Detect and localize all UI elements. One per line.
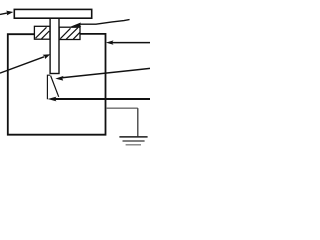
leaf 2 (deflected) [51, 76, 59, 97]
leader arrow 4 (to rod, from lower left) [0, 54, 50, 73]
ground symbol [119, 137, 147, 145]
leader arrow 1 (to plate, from left edge) [0, 11, 13, 16]
insulator block left [34, 26, 50, 39]
leader arrow 3 (to case right wall, from right edge) [106, 40, 150, 44]
ground wire [106, 107, 138, 109]
case (metal box) [8, 34, 106, 135]
top plate (bar) [14, 9, 91, 18]
insulator block right [59, 27, 80, 39]
leaf 1 (vertical) [47, 75, 50, 99]
leader arrow 2 (to rod at insulator, from upper right) [70, 20, 129, 27]
leader arrow 6 (to vertical leaf bottom, from right edge) [48, 97, 150, 102]
rod [50, 18, 59, 73]
leader arrow 5 (to deflected leaf, from right edge) [55, 68, 150, 80]
